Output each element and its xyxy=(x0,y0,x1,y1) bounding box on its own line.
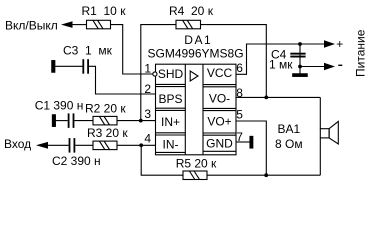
node junction IN- xyxy=(139,143,143,147)
svg-text:R5 20 к: R5 20 к xyxy=(176,157,217,171)
resistor R2 xyxy=(93,116,117,125)
svg-text:IN+: IN+ xyxy=(161,115,180,129)
speaker BA1 xyxy=(320,121,338,144)
svg-text:SGM4996YMS8G: SGM4996YMS8G xyxy=(148,47,244,61)
label minus xyxy=(338,65,342,66)
capacitor C4 xyxy=(290,53,305,58)
svg-text:4: 4 xyxy=(144,132,151,146)
ground C4 xyxy=(293,74,308,77)
svg-text:R1 10 к: R1 10 к xyxy=(82,4,127,18)
op-amp DA1 box xyxy=(156,64,237,155)
resistor R1 xyxy=(87,20,111,29)
wire speaker left leads xyxy=(319,97,321,128)
wire xyxy=(75,144,93,146)
node plus arrow xyxy=(324,40,335,47)
capacitor C1 xyxy=(68,113,75,128)
svg-text:R2 20 к: R2 20 к xyxy=(85,102,126,116)
svg-text:7: 7 xyxy=(236,130,243,144)
wire R2 to pin 3 xyxy=(117,120,156,122)
resistor R5 xyxy=(183,171,207,180)
node minus arrow xyxy=(324,63,335,70)
svg-text:+: + xyxy=(336,37,343,51)
svg-text:VO-: VO- xyxy=(209,91,230,105)
node junction C4 bottom xyxy=(298,65,302,69)
wire xyxy=(55,120,67,122)
resistor R3 xyxy=(93,141,117,150)
ground C3 xyxy=(52,61,55,73)
wire pin 8 VO- xyxy=(236,96,320,98)
svg-text:Питание: Питание xyxy=(354,29,368,77)
svg-text:SHD: SHD xyxy=(158,67,184,81)
svg-text:1: 1 xyxy=(144,62,151,76)
wire xyxy=(55,65,83,67)
svg-text:R3 20 к: R3 20 к xyxy=(87,126,128,140)
svg-text:BPS: BPS xyxy=(158,92,182,106)
svg-text:3: 3 xyxy=(144,107,151,121)
wire xyxy=(111,25,154,74)
svg-text:VCC: VCC xyxy=(207,66,233,80)
wire xyxy=(48,144,69,146)
wire pin 6 VCC to plus rail xyxy=(236,44,325,74)
node Вкл/Выкл arrow xyxy=(61,21,73,28)
wire minus rail xyxy=(300,66,325,68)
wire R4 left vertical xyxy=(141,25,176,121)
svg-text:IN-: IN- xyxy=(163,137,179,151)
wire C4 vertical xyxy=(299,44,301,74)
node junction VO+ bottom xyxy=(264,173,268,177)
resistor R4 xyxy=(176,20,201,29)
node junction VO- xyxy=(264,96,268,100)
svg-text:5: 5 xyxy=(236,108,243,122)
pin 1 inversion bubble xyxy=(153,72,157,76)
svg-text:8 Ом: 8 Ом xyxy=(275,137,303,151)
ground C1 xyxy=(52,115,55,127)
wire pin 7 GND xyxy=(236,141,250,143)
svg-text:C3 1 мк: C3 1 мк xyxy=(63,44,113,58)
wire xyxy=(74,120,93,122)
wire IN- down to R5 xyxy=(141,145,183,175)
svg-text:Вкл/Выкл: Вкл/Выкл xyxy=(5,19,58,33)
node Вход arrow xyxy=(36,142,48,149)
wire C3 to pin 2 xyxy=(89,66,156,94)
wire xyxy=(72,24,87,26)
capacitor C3 xyxy=(82,59,89,73)
svg-text:VO+: VO+ xyxy=(207,114,231,128)
svg-text:C1 390 н: C1 390 н xyxy=(35,98,84,112)
svg-text:Вход: Вход xyxy=(4,137,31,151)
svg-text:R4 20 к: R4 20 к xyxy=(169,4,214,18)
wire bottom to speaker xyxy=(207,174,320,176)
node junction IN+ xyxy=(139,119,143,123)
capacitor C2 xyxy=(69,138,76,153)
wire R4 right to VO- xyxy=(201,25,267,98)
svg-text:8: 8 xyxy=(236,86,243,100)
svg-text:6: 6 xyxy=(236,61,243,75)
svg-text:C2 390 н: C2 390 н xyxy=(52,154,101,168)
svg-text:BA1: BA1 xyxy=(278,122,301,136)
wire pin 5 VO+ xyxy=(236,121,266,175)
ground GND pin xyxy=(250,136,253,148)
svg-text:2: 2 xyxy=(144,82,151,96)
svg-text:1 мк: 1 мк xyxy=(269,58,293,72)
wire R3 to pin 4 xyxy=(117,144,156,146)
node junction C4 top xyxy=(298,42,302,46)
amplifier triangle xyxy=(190,71,198,81)
svg-text:GND: GND xyxy=(206,137,233,151)
svg-text:DA1: DA1 xyxy=(184,33,212,47)
